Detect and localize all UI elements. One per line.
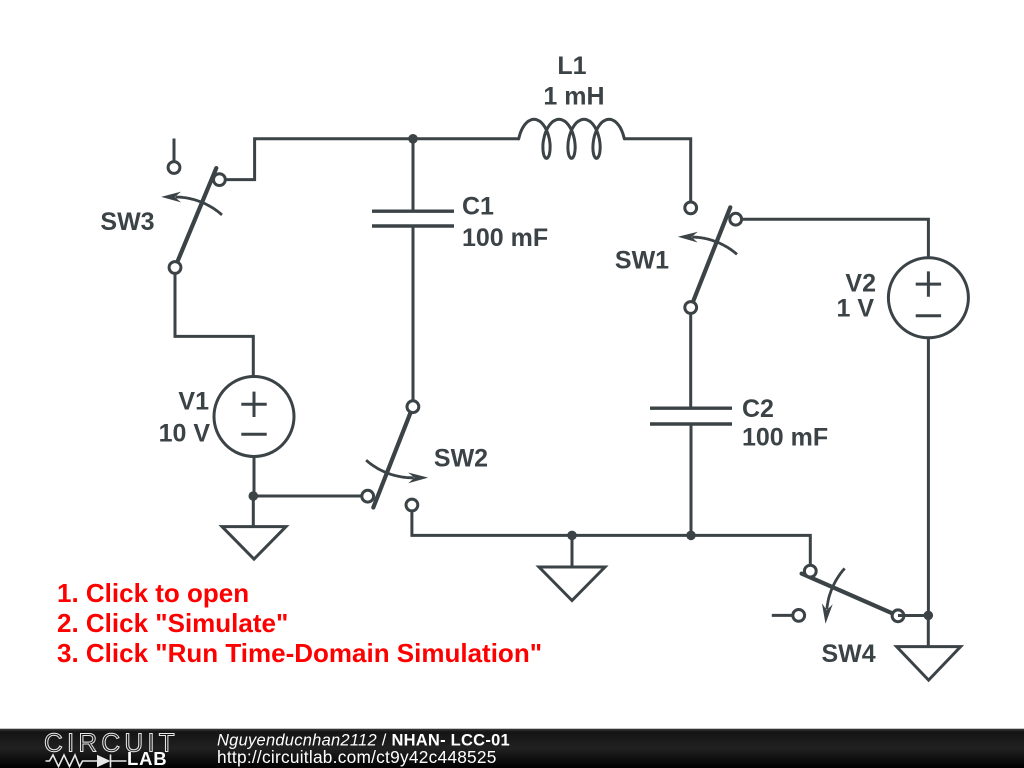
wire C2 to bottom rail	[690, 424, 693, 535]
svg-text:3. Click "Run Time-Domain Simu: 3. Click "Run Time-Domain Simulation"	[57, 638, 542, 668]
wire SW3 open-terminal stub	[173, 139, 176, 162]
voltage source V2	[888, 258, 968, 338]
ground center	[539, 567, 605, 601]
svg-text:LAB: LAB	[127, 748, 167, 768]
svg-text:SW3: SW3	[100, 208, 154, 236]
wire top-left from SW3 pivot up to top rail	[219, 139, 519, 180]
switch SW2	[362, 401, 428, 511]
svg-text:100 mF: 100 mF	[742, 424, 828, 452]
svg-text:1 mH: 1 mH	[543, 83, 604, 111]
node V1-minus junction	[249, 491, 259, 501]
ground under V1	[222, 527, 286, 560]
wire SW3 to V1	[175, 274, 253, 377]
svg-text:V2: V2	[845, 269, 876, 297]
wire node to SW2	[253, 495, 362, 498]
node top rail junction at C1	[408, 134, 418, 144]
switch SW1	[678, 202, 742, 313]
svg-text:10 V: 10 V	[159, 419, 211, 447]
wire SW1 side to V2	[742, 219, 928, 258]
svg-text:V1: V1	[178, 387, 209, 415]
svg-text:SW1: SW1	[615, 246, 669, 274]
wire node to ground	[252, 496, 255, 527]
svg-text:http://circuitlab.com/ct9y42c4: http://circuitlab.com/ct9y42c448525	[217, 747, 497, 767]
svg-text:100 mF: 100 mF	[462, 224, 548, 252]
wire node to ground right	[927, 615, 930, 647]
wire C1 top branch	[412, 139, 415, 211]
node bottom rail left	[567, 531, 577, 541]
svg-text:1. Click to open: 1. Click to open	[57, 578, 249, 608]
wire SW2 open terminal down to bottom rail	[412, 511, 810, 565]
svg-text:SW4: SW4	[822, 640, 876, 668]
svg-text:C1: C1	[462, 193, 494, 221]
wire V2 bottom down to SW4 node	[927, 338, 930, 615]
svg-text:2. Click "Simulate": 2. Click "Simulate"	[57, 608, 288, 638]
inductor L1	[519, 119, 625, 158]
svg-text:L1: L1	[557, 52, 586, 80]
wire top rail right of inductor down to SW1	[625, 139, 691, 203]
footer bar	[0, 729, 1024, 768]
capacitor C1	[372, 211, 454, 226]
node V2-minus SW4 junction	[924, 611, 934, 621]
wire SW1 to C2	[689, 314, 692, 408]
ground right	[897, 647, 961, 681]
instruction text red	[57, 578, 542, 668]
wire V1 bottom to node	[253, 457, 256, 497]
voltage source V1	[214, 377, 294, 457]
wire SW4 to node	[898, 614, 928, 617]
node bottom rail right	[686, 531, 696, 541]
CircuitLab logo	[44, 728, 179, 768]
svg-text:SW2: SW2	[434, 445, 488, 473]
wire C1 bottom to SW2	[412, 226, 415, 401]
svg-text:1 V: 1 V	[836, 295, 874, 323]
svg-text:C2: C2	[742, 395, 774, 423]
wire SW4 open-terminal stub	[772, 614, 792, 617]
switch SW4	[793, 565, 904, 624]
capacitor C2	[650, 408, 732, 424]
wire ground stub center	[571, 535, 574, 567]
switch SW3	[161, 162, 225, 274]
